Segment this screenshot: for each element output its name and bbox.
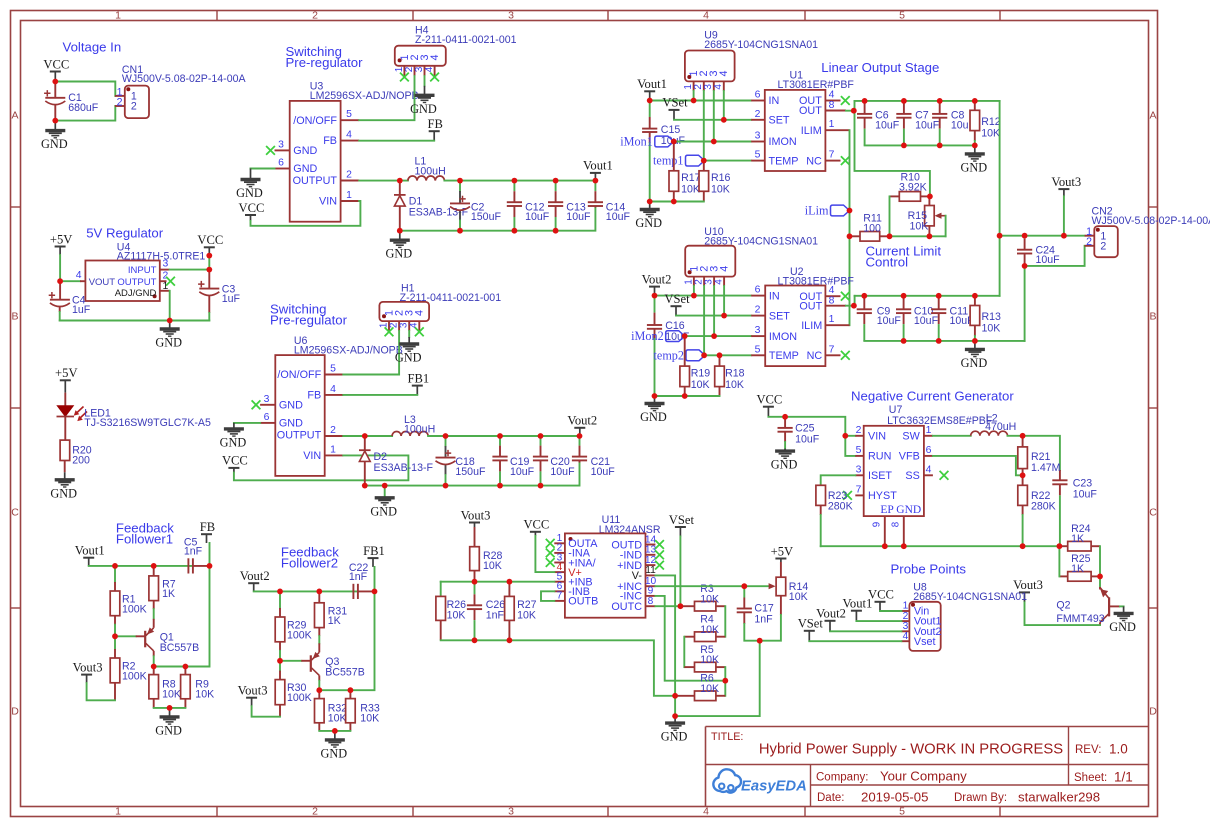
U8 pin 1 lead bbox=[901, 610, 909, 612]
svg-text:3.92K: 3.92K bbox=[899, 181, 927, 193]
junction R10 right/R15 top bbox=[927, 194, 933, 200]
net flag Vout3 (Q2) bbox=[1019, 591, 1030, 593]
svg-text:5: 5 bbox=[755, 344, 761, 355]
wire bbox=[890, 235, 946, 237]
svg-text:4: 4 bbox=[409, 322, 420, 328]
svg-text:150uF: 150uF bbox=[455, 466, 486, 478]
wire bbox=[343, 331, 399, 375]
svg-text:ES3AB-13-F: ES3AB-13-F bbox=[374, 462, 434, 474]
svg-text:Vout3: Vout3 bbox=[73, 660, 103, 674]
wire bbox=[679, 537, 681, 607]
junction R7/C5 top bbox=[151, 563, 157, 569]
svg-text:10K: 10K bbox=[447, 609, 466, 621]
ground at U6 pin6 bbox=[233, 423, 235, 429]
net label iLim bbox=[831, 205, 850, 216]
capacitor C13 10uF bbox=[555, 181, 557, 192]
junction C8 bottom bbox=[937, 143, 943, 149]
svg-text:VSet: VSet bbox=[664, 292, 690, 306]
svg-text:280K: 280K bbox=[828, 500, 853, 512]
svg-text:V+: V+ bbox=[568, 567, 582, 579]
capacitor C5 1nF bbox=[187, 558, 189, 573]
U10 pin 1 lead bbox=[693, 277, 695, 286]
wire bbox=[1058, 546, 1060, 576]
wire divider mid bbox=[279, 651, 281, 661]
U2 pin 6 IN bbox=[751, 295, 765, 297]
svg-text:GND: GND bbox=[385, 247, 412, 261]
junction C1 bottom/GND bbox=[52, 118, 58, 124]
resistor R28 10K bbox=[474, 527, 476, 547]
junction R24/R25/Q2 bbox=[1097, 574, 1103, 580]
svg-text:2: 2 bbox=[755, 109, 761, 120]
svg-text:EasyEDA: EasyEDA bbox=[741, 779, 807, 795]
resistor R4 10K bbox=[684, 636, 694, 638]
svg-text:2: 2 bbox=[755, 305, 761, 316]
junction C11 bottom bbox=[936, 338, 942, 344]
junction C21 top/Vout2 bbox=[577, 433, 583, 439]
svg-text:FB1: FB1 bbox=[363, 544, 385, 558]
wire base to lower resistor bbox=[114, 636, 116, 649]
svg-text:4: 4 bbox=[703, 806, 709, 818]
U11 pin 8 lead bbox=[646, 605, 656, 607]
svg-text:Probe Points: Probe Points bbox=[891, 562, 967, 577]
svg-text:temp2: temp2 bbox=[654, 348, 684, 362]
svg-text:OUT: OUT bbox=[799, 300, 822, 312]
svg-text:Vout2: Vout2 bbox=[642, 272, 672, 286]
svg-text:10K: 10K bbox=[711, 184, 730, 196]
wire bbox=[444, 180, 595, 182]
svg-text:Follower1: Follower1 bbox=[116, 532, 173, 547]
svg-text:100K: 100K bbox=[122, 603, 147, 615]
svg-text:8: 8 bbox=[829, 295, 835, 306]
wire bbox=[683, 637, 685, 667]
svg-text:5: 5 bbox=[899, 9, 905, 21]
svg-text:OUTPUT: OUTPUT bbox=[277, 429, 322, 441]
inductor L1 100uH bbox=[408, 176, 445, 181]
U11 pin 5 lead bbox=[554, 581, 565, 583]
svg-text:FB1: FB1 bbox=[407, 371, 429, 385]
svg-text:1nF: 1nF bbox=[349, 571, 368, 583]
junction U9 pin1 on IN row bbox=[691, 98, 697, 104]
svg-text:GND: GND bbox=[961, 356, 988, 370]
svg-text:7: 7 bbox=[829, 150, 835, 161]
U2 pin 2 SET bbox=[751, 315, 765, 317]
U3 pin 6 GND bbox=[275, 168, 290, 170]
svg-text:1: 1 bbox=[115, 9, 121, 21]
svg-text:1.0: 1.0 bbox=[1109, 742, 1128, 757]
svg-text:/ON/OFF: /ON/OFF bbox=[277, 369, 321, 381]
svg-text:VSet: VSet bbox=[798, 617, 824, 631]
junction C20 bottom bbox=[538, 483, 544, 489]
junction R9 top bbox=[183, 664, 189, 670]
net flag Vout2 bbox=[825, 620, 836, 622]
svg-text:SET: SET bbox=[769, 310, 790, 322]
svg-text:Pre-regulator: Pre-regulator bbox=[286, 55, 364, 70]
wire bbox=[999, 236, 1001, 296]
resistor R13 10K bbox=[974, 296, 976, 306]
wire bbox=[655, 295, 752, 297]
svg-text:D: D bbox=[1149, 706, 1157, 718]
svg-text:2019-05-05: 2019-05-05 bbox=[861, 790, 928, 805]
resistor R9 10K bbox=[184, 667, 186, 675]
svg-text:C15: C15 bbox=[661, 124, 681, 136]
wire bbox=[89, 565, 193, 567]
wire bbox=[655, 605, 680, 607]
wire bbox=[319, 730, 350, 732]
svg-text:C: C bbox=[1149, 507, 1157, 519]
U4 pin 2 lead OUTPUT bbox=[160, 280, 167, 282]
ground below R20 bbox=[64, 472, 66, 480]
resistor R16 10K bbox=[703, 161, 705, 171]
svg-text:OUTC: OUTC bbox=[611, 601, 642, 613]
wire bbox=[855, 100, 1000, 102]
svg-text:GND: GND bbox=[279, 418, 303, 430]
svg-text:1K: 1K bbox=[1071, 533, 1084, 545]
net flag FB1 bbox=[368, 557, 379, 559]
U2 pin 7 NC bbox=[825, 354, 840, 356]
svg-text:B: B bbox=[1149, 311, 1156, 323]
wire bbox=[650, 100, 752, 102]
junction Vout1/C15 bbox=[647, 98, 653, 104]
junction temp1/U9 pin2/R16 on TEMP row bbox=[701, 158, 707, 164]
capacitor C4 1uF (polarized) bbox=[59, 281, 61, 300]
svg-text:BC557B: BC557B bbox=[160, 642, 199, 654]
svg-text:Linear Output Stage: Linear Output Stage bbox=[821, 60, 939, 75]
svg-text:iMon2: iMon2 bbox=[631, 329, 664, 343]
svg-text:OUTB: OUTB bbox=[568, 596, 598, 608]
junction ground stub bbox=[167, 705, 173, 711]
U11 pin 6 lead bbox=[554, 590, 565, 592]
capacitor C12 10uF bbox=[513, 181, 515, 192]
svg-text:4: 4 bbox=[414, 310, 426, 316]
svg-text:GND: GND bbox=[395, 351, 422, 365]
svg-text:Voltage In: Voltage In bbox=[63, 40, 122, 55]
svg-text:150uF: 150uF bbox=[471, 211, 502, 223]
svg-text:Vout3: Vout3 bbox=[238, 684, 268, 698]
svg-text:2685Y-104CNG1SNA01: 2685Y-104CNG1SNA01 bbox=[704, 39, 818, 51]
svg-text:REV:: REV: bbox=[1075, 744, 1101, 756]
junction at VCC flag bbox=[206, 253, 212, 259]
svg-text:5: 5 bbox=[755, 150, 761, 161]
svg-text:10K: 10K bbox=[789, 591, 808, 603]
svg-text:2: 2 bbox=[1086, 236, 1092, 248]
U7 pin 5 RUN bbox=[855, 455, 863, 457]
wire bbox=[685, 335, 752, 337]
svg-text:5: 5 bbox=[856, 445, 862, 456]
junction C14 top/Vout1 bbox=[593, 178, 599, 184]
svg-text:4: 4 bbox=[346, 130, 352, 141]
svg-text:Control: Control bbox=[866, 254, 909, 269]
junction rail/CN2 row bbox=[997, 233, 1003, 239]
svg-text:2: 2 bbox=[1100, 240, 1106, 252]
wire bbox=[359, 76, 414, 120]
svg-text:FMMT493: FMMT493 bbox=[1056, 613, 1104, 625]
svg-text:5V Regulator: 5V Regulator bbox=[86, 225, 164, 240]
no-connect X on H4 pin4 bbox=[430, 73, 439, 82]
svg-text:VCC: VCC bbox=[523, 518, 549, 532]
resistor R12 10K bbox=[974, 101, 976, 110]
U1 pin 4 OUT bbox=[825, 100, 840, 102]
junction R27 bottom bbox=[507, 637, 513, 643]
svg-text:10K: 10K bbox=[328, 712, 347, 724]
capacitor C7 10uF bbox=[903, 101, 905, 103]
wire bbox=[365, 463, 580, 486]
svg-text:4: 4 bbox=[424, 66, 435, 72]
svg-text:FB: FB bbox=[307, 390, 321, 402]
svg-text:GND: GND bbox=[293, 163, 317, 175]
potentiometer R14 10K bbox=[780, 562, 782, 577]
junction D1 top bbox=[397, 178, 403, 184]
Q2 base lead to ground bbox=[1109, 605, 1120, 607]
svg-text:3: 3 bbox=[163, 259, 169, 270]
svg-text:1/1: 1/1 bbox=[1114, 770, 1133, 785]
svg-text:4: 4 bbox=[926, 464, 932, 475]
U11 pin 13 lead bbox=[646, 554, 656, 556]
resistor R3 10K bbox=[680, 605, 694, 607]
svg-text:NC: NC bbox=[806, 155, 822, 167]
ground below C16 bbox=[654, 396, 656, 404]
svg-text:10K: 10K bbox=[691, 379, 710, 391]
svg-text:GND: GND bbox=[155, 723, 182, 737]
resistor R27 10K bbox=[508, 582, 510, 597]
junction ground rail/R17 bbox=[671, 199, 677, 205]
junction C19 bottom bbox=[497, 483, 503, 489]
ground at H1 pin3 bbox=[408, 337, 410, 344]
junction C13 bottom bbox=[553, 228, 559, 234]
wire bbox=[59, 255, 61, 281]
junction R12 top bbox=[972, 98, 978, 104]
wire R13 bottom bbox=[974, 336, 976, 341]
wire bbox=[154, 707, 186, 709]
wire bbox=[359, 140, 434, 142]
svg-text:3: 3 bbox=[264, 394, 270, 405]
wire bbox=[889, 196, 891, 236]
svg-text:iLim: iLim bbox=[805, 204, 829, 218]
svg-text:100K: 100K bbox=[287, 692, 312, 704]
net flag Vout1 (rail) bbox=[590, 172, 601, 174]
svg-text:10K: 10K bbox=[982, 323, 1001, 335]
junction VIN/RUN bbox=[842, 433, 848, 439]
svg-text:6: 6 bbox=[264, 412, 270, 423]
junction ADJ-GND/ground rail bbox=[167, 318, 173, 324]
H1 pin 2 lead bbox=[398, 321, 400, 331]
wire to divider top resistor bbox=[279, 591, 281, 608]
svg-text:GND: GND bbox=[661, 730, 688, 744]
capacitor C15 10uF bbox=[649, 101, 651, 118]
svg-text:4: 4 bbox=[829, 90, 835, 101]
U6 pin 5 /ON/OFF bbox=[325, 374, 344, 376]
wire bbox=[655, 395, 720, 397]
wire R23 bottom to rail bbox=[820, 515, 822, 546]
U1 pin 6 IN bbox=[751, 100, 765, 102]
junction Vout3 stub bbox=[1061, 233, 1067, 239]
wire SW to L2 bbox=[933, 435, 971, 437]
svg-text:GND: GND bbox=[640, 410, 667, 424]
wire bbox=[251, 201, 361, 226]
U7 pin 1 SW bbox=[924, 435, 933, 437]
svg-text:BC557B: BC557B bbox=[325, 667, 364, 679]
svg-text:200: 200 bbox=[72, 454, 90, 466]
svg-text:10uF: 10uF bbox=[875, 120, 900, 132]
wire bbox=[254, 590, 358, 592]
wire ISET to R23 bbox=[821, 475, 856, 485]
svg-text:10K: 10K bbox=[483, 560, 502, 572]
resistor R24 1K bbox=[1059, 545, 1067, 547]
junction C17 top bbox=[741, 583, 747, 589]
U11 pin 10 lead bbox=[646, 585, 656, 587]
power flag VCC (U6 VIN) bbox=[228, 467, 239, 469]
U3 pin 3 GND bbox=[275, 149, 290, 151]
svg-text:7: 7 bbox=[557, 591, 563, 602]
svg-text:4: 4 bbox=[903, 631, 909, 642]
junction EP/ground rail bbox=[882, 543, 888, 549]
svg-text:ILIM: ILIM bbox=[801, 320, 822, 332]
svg-text:1: 1 bbox=[926, 425, 932, 436]
wire bbox=[208, 256, 210, 270]
resistor R22 280K bbox=[1022, 475, 1024, 485]
svg-text:ADJ/GND: ADJ/GND bbox=[115, 288, 157, 299]
wire C18 bottom bbox=[445, 475, 447, 486]
net flag VSet (U2) bbox=[671, 305, 682, 307]
svg-text:GND: GND bbox=[155, 336, 182, 350]
wire bbox=[704, 354, 751, 356]
junction R18 top bbox=[717, 352, 723, 358]
svg-text:ISET: ISET bbox=[868, 470, 892, 482]
junction C19 top bbox=[497, 433, 503, 439]
svg-text:iMon1: iMon1 bbox=[620, 135, 653, 149]
svg-text:4: 4 bbox=[718, 70, 730, 76]
U8 pin 4 lead bbox=[901, 640, 909, 642]
resistor R10 3.92K bbox=[899, 192, 920, 202]
svg-text:+5V: +5V bbox=[50, 232, 73, 246]
svg-text:GND: GND bbox=[279, 399, 303, 411]
net flag +5V bbox=[775, 558, 786, 560]
svg-text:GND: GND bbox=[220, 435, 247, 449]
U3 pin 5 /ON/OFF bbox=[341, 119, 360, 121]
power flag VCC (U7) bbox=[763, 406, 774, 408]
junction ground stub bbox=[382, 483, 388, 489]
svg-text:TEMP: TEMP bbox=[769, 155, 799, 167]
ground at Q2 base bbox=[1123, 606, 1125, 613]
svg-text:OUT: OUT bbox=[799, 105, 822, 117]
svg-text:3: 3 bbox=[755, 131, 761, 142]
junction C13 top bbox=[553, 178, 559, 184]
svg-text:470uH: 470uH bbox=[985, 421, 1016, 433]
capacitor C24 10uF bbox=[1024, 236, 1026, 239]
no-connect X on U7 pin7 bbox=[843, 491, 852, 500]
title block bbox=[706, 726, 1149, 728]
U7 pin 8 GND lead bbox=[903, 516, 905, 546]
junction ground stub bbox=[332, 728, 338, 734]
wire bbox=[855, 101, 930, 196]
svg-text:4: 4 bbox=[719, 266, 731, 272]
svg-text:Vout3: Vout3 bbox=[1051, 175, 1081, 189]
U6 pin 6 GND bbox=[260, 422, 275, 424]
svg-text:3: 3 bbox=[508, 9, 514, 21]
svg-text:1: 1 bbox=[829, 314, 835, 325]
power flag VCC near U4 bbox=[204, 246, 215, 248]
wire bbox=[60, 320, 210, 322]
wire bbox=[674, 696, 676, 716]
wire bbox=[343, 435, 392, 437]
junction R13 top bbox=[972, 293, 978, 299]
no-connect X on U2 pin7 bbox=[841, 351, 850, 360]
svg-text:V-: V- bbox=[632, 570, 643, 582]
junction C25 top bbox=[782, 414, 788, 420]
wire C4 bottom bbox=[59, 312, 61, 321]
U11 pin 14 lead bbox=[646, 544, 656, 546]
U10 pin 3 lead bbox=[713, 277, 715, 286]
ground below R8/R9 bbox=[169, 708, 171, 717]
svg-text:10uF: 10uF bbox=[1036, 254, 1061, 266]
U6 pin 2 OUTPUT bbox=[325, 435, 344, 437]
capacitor C26 1nF bbox=[474, 582, 476, 595]
U11 pin 9 lead bbox=[646, 595, 656, 597]
junction GND8/ground rail bbox=[901, 543, 907, 549]
wire bbox=[1025, 602, 1101, 626]
svg-text:SET: SET bbox=[769, 115, 790, 127]
junction VCC/C1 top bbox=[52, 79, 58, 85]
wire bbox=[945, 216, 947, 237]
junction ground node bbox=[672, 713, 678, 719]
junction R divider top bbox=[277, 589, 283, 595]
no-connect X on H1 pin1 bbox=[385, 327, 394, 336]
svg-text:VIN: VIN bbox=[303, 450, 321, 462]
U1 pin 1 ILIM bbox=[825, 129, 849, 131]
junction INPUT/VCC column bbox=[206, 267, 212, 273]
junction C17 bottom/R14 bottom bbox=[757, 638, 763, 644]
no-connect X on U11 pin14 bbox=[655, 540, 664, 549]
junction C12 top bbox=[512, 178, 518, 184]
wire bbox=[856, 620, 901, 622]
U4 pin 4 lead bbox=[80, 280, 85, 282]
svg-text:+5V: +5V bbox=[55, 366, 78, 380]
H4 pin 1 lead bbox=[403, 66, 405, 76]
junction C9 top bbox=[861, 293, 867, 299]
wire row down to R26 bbox=[440, 582, 442, 597]
svg-text:10uF: 10uF bbox=[1073, 489, 1098, 501]
svg-text:Z-211-0411-0021-001: Z-211-0411-0021-001 bbox=[415, 34, 517, 46]
svg-text:IN: IN bbox=[769, 290, 780, 302]
wire SET row bbox=[674, 119, 751, 121]
wire bbox=[441, 581, 555, 583]
svg-text:Vout1: Vout1 bbox=[842, 597, 872, 611]
wire bbox=[723, 91, 725, 120]
svg-text:10uF: 10uF bbox=[550, 466, 575, 478]
svg-text:Sheet:: Sheet: bbox=[1074, 772, 1107, 784]
wire bbox=[999, 101, 1001, 236]
junction C2 bottom bbox=[457, 228, 463, 234]
wire bbox=[855, 295, 1000, 297]
resistor R6 10K bbox=[675, 695, 694, 697]
U9 pin 2 lead bbox=[703, 81, 705, 91]
wire bbox=[60, 280, 80, 282]
wire bbox=[55, 106, 115, 121]
svg-text:10uF: 10uF bbox=[591, 466, 616, 478]
junction R21/R22/VFB bbox=[1020, 472, 1026, 478]
U7 pin 6 VFB bbox=[924, 455, 933, 457]
U2 pin 1 ILIM bbox=[825, 324, 849, 326]
net flag VCC bbox=[530, 531, 541, 533]
U2 pin 5 TEMP bbox=[751, 354, 765, 356]
junction R21 top bbox=[1020, 433, 1026, 439]
capacitor C20 10uF bbox=[540, 436, 542, 446]
net flag VSet (U11 OUTC) bbox=[675, 526, 686, 528]
U9 pin 1 lead bbox=[693, 81, 695, 91]
EasyEDA logo bbox=[713, 769, 741, 792]
svg-text:Vout3: Vout3 bbox=[461, 508, 491, 522]
junction R divider top bbox=[112, 563, 118, 569]
svg-text:6: 6 bbox=[278, 158, 284, 169]
